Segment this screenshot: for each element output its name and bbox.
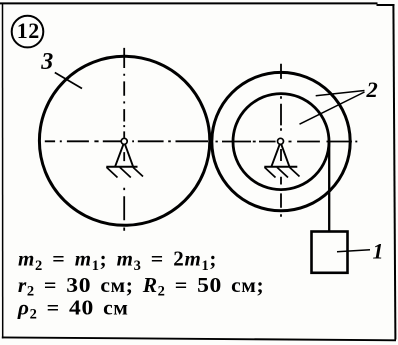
border frame bottom [2,337,396,340]
pivot triangle [272,143,290,166]
border frame right [393,4,395,340]
pivot pin circle [278,138,284,144]
svg-text:3: 3 [40,49,53,75]
ground hatching [107,167,144,177]
svg-text:12: 12 [17,18,40,43]
pulley 2 centerline horizontal [216,141,358,143]
border frame left [2,3,4,339]
pivot support of wheel 3 [106,138,143,177]
rope from pulley to weight [328,142,330,235]
svg-text:2: 2 [366,77,378,102]
pivot triangle [115,143,133,166]
leader line to label 1 [337,250,370,252]
pivot support of pulley 2 [264,138,299,177]
wheel 3 rim [39,56,209,225]
leader line to label 3 [55,73,82,89]
problem number badge circle [12,16,44,48]
pulley 2 inner rim [233,94,329,190]
ground hatching [265,167,300,177]
leader line lower to label 2 (inner rim) [300,92,365,124]
svg-text:1: 1 [373,238,384,263]
leader line upper to label 2 (outer rim) [316,91,365,96]
wheel 3 centerline vertical [123,48,125,231]
pivot pin circle [121,138,127,144]
pivot ground line [264,166,297,168]
pivot ground line [106,166,137,168]
weight 1 block [312,232,348,273]
svg-text:m2 = m1; m3 = 2m1;: m2 = m1; m3 = 2m1; [18,247,217,275]
pulley 2 outer rim [212,72,350,210]
wheel 3 centerline horizontal [45,140,208,142]
pulley 2 centerline vertical [280,64,282,217]
border frame top [0,2,378,4]
